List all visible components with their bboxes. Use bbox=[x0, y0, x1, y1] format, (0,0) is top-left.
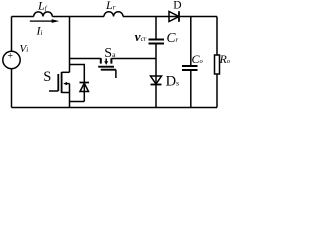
svg-text:Co: Co bbox=[192, 52, 204, 66]
svg-text:vcr: vcr bbox=[135, 29, 147, 44]
svg-text:Vi: Vi bbox=[20, 43, 29, 55]
svg-text:S: S bbox=[43, 69, 51, 85]
svg-text:Sa: Sa bbox=[104, 46, 116, 61]
svg-text:D: D bbox=[173, 0, 181, 11]
svg-text:Cr: Cr bbox=[167, 30, 179, 45]
svg-text:Ro: Ro bbox=[219, 52, 231, 66]
svg-text:Lf: Lf bbox=[37, 0, 48, 13]
svg-text:+: + bbox=[7, 51, 13, 62]
svg-text:Lr: Lr bbox=[105, 0, 116, 12]
svg-text:Ds: Ds bbox=[166, 74, 179, 90]
svg-text:Ii: Ii bbox=[36, 23, 43, 37]
